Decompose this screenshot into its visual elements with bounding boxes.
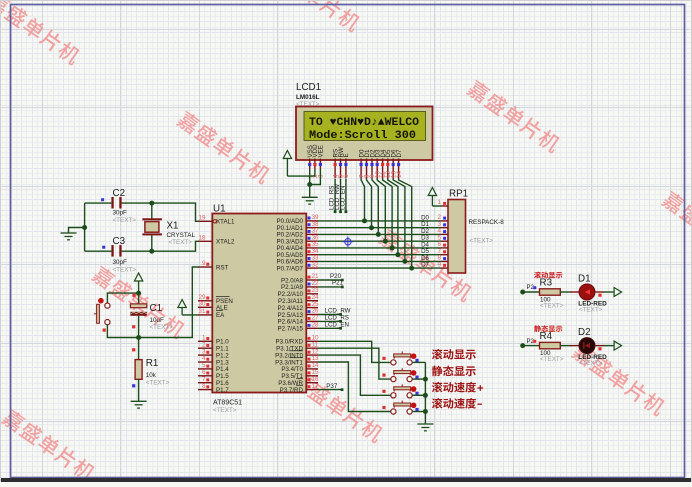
wire VSS (309, 169, 311, 197)
U1 pin 6 P1.5 (198, 375, 212, 377)
U1 pin 9 RST (198, 266, 212, 268)
U1 pin 34 P0.5/AD5 (306, 254, 318, 256)
svg-text:8: 8 (202, 383, 206, 390)
wire P0.5 to RP1 (318, 254, 441, 256)
U1 pin 26 P2.5/A13 (306, 314, 318, 316)
svg-text:<TEXT>: <TEXT> (169, 239, 193, 246)
wire P0.2 to RP1 (318, 233, 441, 235)
wire P3.1 to button 2 (318, 348, 391, 379)
wire LCD D7 down (399, 179, 412, 269)
junction D0 (362, 218, 367, 223)
svg-text:28: 28 (312, 322, 320, 329)
U1 pin 11 P3.1/TXD (306, 347, 318, 349)
label 静态显示 (534, 325, 562, 332)
wire P0.0 to RP1 (318, 220, 441, 222)
LCD1 LM016L display (296, 82, 433, 179)
wire P3.3 to button 4 (318, 362, 391, 412)
U1 pin 4 P1.3 (198, 361, 212, 363)
wire net LCD_RW (318, 314, 341, 316)
U1 pin 31 EA (198, 314, 212, 316)
RP1 pin 7 / D5 (441, 254, 448, 256)
U1 pin 12 P3.2/INT0 (306, 354, 318, 356)
RP1 pin 8 / D6 (441, 260, 448, 262)
U1 pin 29 PSEN (198, 300, 212, 302)
svg-text:R3: R3 (540, 278, 553, 289)
svg-text:P21: P21 (332, 280, 344, 287)
wire P0.7 to RP1 (318, 267, 441, 269)
capacitor C3 30pF (85, 236, 152, 274)
wire to RP1 pin 1 (432, 205, 441, 207)
power arrow VDD for LCD (283, 151, 291, 159)
junction (136, 291, 141, 296)
ground (reset circuit) (131, 401, 147, 408)
ground (crystal circuit) (61, 233, 77, 240)
power arrow right (614, 288, 622, 297)
U1 pin 14 P3.4/T0 (306, 368, 318, 370)
svg-text:CRYSTAL: CRYSTAL (167, 232, 196, 239)
resistor R4 100 (540, 331, 564, 363)
svg-text:RST: RST (216, 264, 229, 271)
U1 pin 33 P0.6/AD6 (306, 260, 318, 262)
wire LCD D0 down (361, 179, 364, 221)
svg-text:LM016L: LM016L (296, 94, 320, 101)
wire P3.7 net P37 (318, 389, 342, 391)
svg-text:<TEXT>: <TEXT> (579, 360, 603, 367)
RP1 pin 6 / D4 (441, 247, 448, 249)
capacitor C1 10uF (130, 293, 173, 337)
U1 pin 37 P0.2/AD2 (306, 233, 318, 235)
U1 pin 25 P2.4/A12 (306, 307, 318, 309)
resistor R3 100 (540, 278, 564, 310)
wire button to RST row (107, 325, 138, 338)
svg-text:<TEXT>: <TEXT> (579, 307, 603, 314)
svg-text:D2: D2 (578, 327, 591, 338)
window edge strips (0, 478, 692, 482)
U1 pin 36 P0.3/AD3 (306, 240, 318, 242)
U1 pin 1 P1.0 (198, 340, 212, 342)
junction D2 (376, 232, 381, 237)
wire P0.3 to RP1 (318, 240, 441, 242)
svg-text:9: 9 (437, 261, 441, 268)
wire VEE (310, 169, 321, 185)
U1 pin 16 P3.6/WR (306, 382, 318, 384)
wire P0.1 to RP1 (318, 227, 441, 229)
label 滚动显示 (534, 272, 562, 279)
node ground tap (82, 225, 87, 230)
U1 pin 39 P0.0/AD0 (306, 220, 318, 222)
wire P0.6 to RP1 (318, 260, 441, 262)
svg-text:<TEXT>: <TEXT> (213, 407, 237, 414)
junction D3 (383, 239, 388, 244)
U1 pin 30 ALE (198, 306, 212, 308)
U1 pin 32 P0.7/AD7 (306, 267, 318, 269)
junction C2/crystal (149, 201, 154, 206)
power arrow right (614, 341, 622, 350)
svg-text:P37: P37 (326, 383, 338, 390)
power arrow EA (178, 300, 186, 308)
wire RST node to U1 (139, 267, 199, 338)
U1 pin 13 P3.3/INT1 (306, 361, 318, 363)
svg-text:LCD_EN: LCD_EN (339, 186, 346, 210)
svg-text:D7: D7 (421, 262, 429, 269)
wire net LCD_EN (318, 327, 341, 329)
svg-text:D7: D7 (396, 149, 403, 157)
svg-text:E: E (343, 153, 350, 157)
svg-text:XTAL2: XTAL2 (216, 239, 235, 246)
junction D1 (369, 225, 374, 230)
RP1 pin 5 / D3 (441, 240, 448, 242)
svg-text:10k: 10k (146, 372, 157, 379)
wire (523, 345, 540, 347)
wire LCD D6 down (393, 179, 405, 262)
wire (85, 250, 112, 252)
junction C3/crystal (149, 249, 154, 254)
wire LCD_RS (334, 179, 336, 212)
push button 4 (滚动速度-) (382, 401, 418, 415)
svg-text:19: 19 (198, 215, 206, 222)
U1 pin 17 P3.7/RD (306, 389, 318, 391)
label 静态显示 (432, 366, 476, 377)
svg-text:XTAL1: XTAL1 (216, 219, 235, 226)
wire button 3 right (412, 394, 425, 396)
wire VDD (287, 169, 315, 176)
svg-text:VEE: VEE (318, 145, 325, 157)
wire net LCD_RS (318, 320, 341, 322)
junction D5 (395, 252, 400, 257)
label 滚动速度- (432, 398, 482, 409)
LED D2 LED-RED (578, 327, 607, 367)
svg-text:<TEXT>: <TEXT> (113, 217, 137, 224)
LED D1 LED-RED (578, 274, 607, 314)
op U1 AT89C51 microcontroller (212, 203, 306, 414)
capacitor C2 30pF (85, 188, 152, 224)
U1 pin 27 P2.6/A14 (306, 320, 318, 322)
wire P2.1 net P21 (318, 286, 342, 288)
wire button 2 right (412, 378, 425, 380)
junction D7 (409, 266, 414, 271)
svg-text:10uF: 10uF (150, 317, 165, 324)
U1 pin 8 P1.7 (198, 389, 212, 391)
U1 pin 3 P1.2 (198, 354, 212, 356)
wire LCD_EN (345, 179, 347, 212)
wire LCD D5 down (388, 179, 398, 255)
wire P0.4 to RP1 (318, 247, 441, 249)
node net P2x (R3) (520, 290, 525, 295)
push button (reset) (94, 294, 136, 332)
ground below LCD (302, 197, 318, 204)
RP1 pin 4 / D2 (441, 233, 448, 235)
origin marker (343, 236, 354, 247)
wire LCD D1 down (367, 179, 372, 228)
U1 pin 28 P2.7/A15 (306, 327, 318, 329)
node net P2x (R4) (520, 343, 525, 348)
push button 3 (滚动速度+) (382, 384, 418, 398)
resistor R1 10k (132, 338, 169, 402)
junction VSS/VEE (307, 182, 312, 187)
push button 2 (静态显示) (382, 368, 418, 382)
svg-text:P2.7/A15: P2.7/A15 (278, 326, 304, 333)
power arrow RP1 (428, 188, 436, 196)
wire (560, 345, 570, 347)
svg-text:14: 14 (396, 170, 403, 178)
label 滚动显示 (432, 349, 476, 360)
wire (604, 345, 615, 347)
junction D6 (402, 259, 407, 264)
ground (buttons) (417, 424, 433, 431)
U1 pin 10 P3.0/RXD (306, 340, 318, 342)
svg-text:Mode:Scroll 300: Mode:Scroll 300 (309, 130, 416, 142)
svg-text:LCD1: LCD1 (296, 82, 321, 93)
svg-text:6: 6 (343, 174, 350, 178)
wire P3.0 to button 1 (318, 341, 391, 362)
svg-text:TO ♥CHN♥D♪▲WELCO: TO ♥CHN♥D♪▲WELCO (309, 117, 419, 129)
svg-text:17: 17 (312, 383, 320, 390)
svg-text:<TEXT>: <TEXT> (150, 324, 174, 331)
U1 pin 23 P2.2/A10 (306, 293, 318, 295)
wire to reset button (107, 293, 138, 303)
wire C3 row to XTAL2 (152, 241, 199, 251)
U1 pin 35 P0.4/AD4 (306, 247, 318, 249)
svg-text:30: 30 (198, 301, 206, 308)
svg-text:<TEXT>: <TEXT> (113, 267, 137, 274)
wire (523, 291, 540, 293)
svg-text:C1: C1 (150, 303, 163, 314)
U1 pin 38 P0.1/AD1 (306, 227, 318, 229)
svg-text:<TEXT>: <TEXT> (540, 302, 564, 309)
wire LCD D3 down (377, 179, 385, 242)
svg-text:D1: D1 (578, 274, 591, 285)
junction D4 (390, 245, 395, 250)
watermark texts 嘉盛单片机 (0, 0, 83, 66)
svg-text:30pF: 30pF (113, 210, 128, 217)
wire C2 row to XTAL1 (152, 203, 199, 221)
svg-text:30pF: 30pF (113, 259, 128, 266)
wire P3.2 to button 3 (318, 355, 391, 395)
svg-text:X1: X1 (167, 221, 179, 232)
svg-text:C2: C2 (113, 188, 126, 199)
wire P2.0 net P20 (318, 279, 342, 281)
RP1 pin 2 / D0 (441, 220, 448, 222)
push button 1 (滚动显示) (382, 351, 418, 365)
wire (560, 291, 570, 293)
svg-text:P1.7: P1.7 (216, 387, 229, 394)
svg-text:RESPACK-8: RESPACK-8 (469, 219, 505, 226)
svg-text:EA: EA (216, 312, 225, 319)
svg-text:RP1: RP1 (449, 189, 468, 200)
svg-text:1: 1 (437, 199, 441, 206)
label 滚动速度+ (432, 382, 483, 393)
svg-text:18: 18 (198, 235, 206, 242)
junction C1/R1/RST (136, 335, 141, 340)
wire LCD_RW (340, 179, 342, 212)
svg-text:P0.7/AD7: P0.7/AD7 (277, 265, 304, 272)
svg-text:P3.7/RD: P3.7/RD (280, 387, 304, 394)
crystal X1 (142, 203, 195, 251)
U1 pin 18 XTAL2 (198, 240, 212, 242)
svg-text:<TEXT>: <TEXT> (146, 380, 170, 387)
svg-text:R1: R1 (146, 358, 159, 369)
RP1 pin 3 / D1 (441, 227, 448, 229)
resistor pack RP1 RESPACK-8 (448, 189, 504, 274)
wire EA (182, 314, 198, 316)
U1 pin 24 P2.3/A11 (306, 300, 318, 302)
wire (604, 291, 615, 293)
svg-text:9: 9 (202, 260, 206, 267)
U1 pin 2 P1.1 (198, 347, 212, 349)
U1 pin 5 P1.4 (198, 368, 212, 370)
wire left bus (C2/C3) (84, 203, 86, 251)
U1 pin 19 XTAL1 (198, 220, 212, 222)
wire button 1 right (412, 361, 425, 363)
svg-text:R4: R4 (540, 331, 553, 342)
wire button 4 right (412, 411, 425, 413)
RP1 pin 9 / D7 (441, 267, 448, 269)
svg-text:AT89C51: AT89C51 (213, 400, 242, 407)
wire button ground bus (424, 362, 426, 424)
svg-text:32: 32 (312, 261, 320, 268)
wire to ground (69, 228, 85, 234)
svg-text:LCD_EN: LCD_EN (325, 321, 349, 328)
RP1 pin 1 (441, 205, 448, 207)
svg-text:31: 31 (198, 308, 206, 315)
U1 pin 22 P2.1/A9 (306, 286, 318, 288)
U1 pin 7 P1.6 (198, 382, 212, 384)
wire (85, 202, 112, 204)
svg-text:<TEXT>: <TEXT> (470, 238, 494, 245)
wire LCD D2 down (372, 179, 378, 235)
U1 pin 15 P3.5/T1 (306, 375, 318, 377)
U1 pin 21 P2.0/A8 (306, 279, 318, 281)
svg-text:<TEXT>: <TEXT> (540, 356, 564, 363)
wire LCD D4 down (383, 179, 393, 248)
power arrow (reset circuit) (134, 273, 142, 281)
svg-text:C3: C3 (113, 236, 126, 247)
